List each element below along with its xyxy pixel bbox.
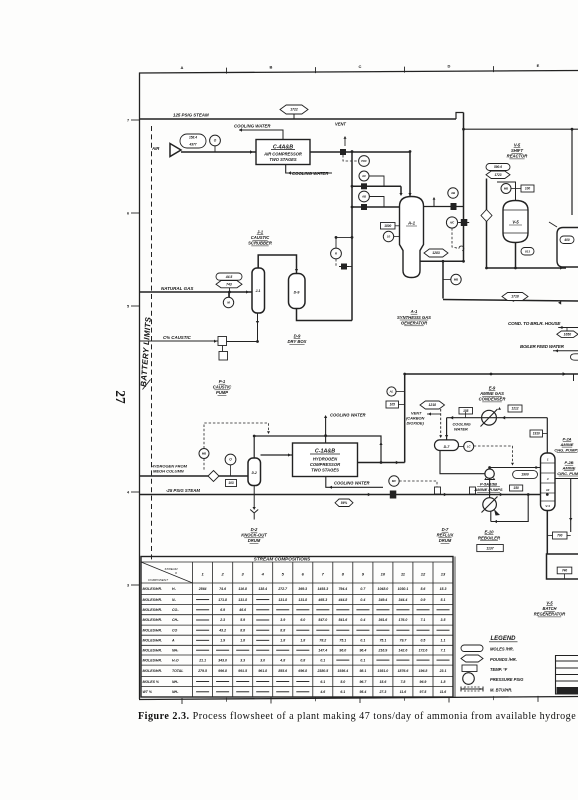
svg-text:MOLES/HR.: MOLES/HR. bbox=[143, 648, 162, 652]
svg-text:COOLING WATER: COOLING WATER bbox=[334, 481, 370, 486]
svg-text:WT %: WT % bbox=[143, 690, 153, 694]
svg-text:11.6: 11.6 bbox=[400, 690, 407, 694]
svg-text:75.1: 75.1 bbox=[339, 639, 346, 643]
label 155 stub bbox=[465, 412, 467, 418]
svg-text:MOLES/HR.: MOLES/HR. bbox=[143, 608, 162, 612]
wire right edge drop bbox=[573, 374, 575, 381]
svg-text:MOLES/HR.: MOLES/HR. bbox=[143, 628, 162, 632]
svg-text:361.6: 361.6 bbox=[379, 618, 388, 622]
svg-text:SHIFT: SHIFT bbox=[511, 148, 524, 153]
valve caustic square bbox=[218, 337, 227, 346]
svg-text:0.1: 0.1 bbox=[320, 658, 325, 662]
svg-text:AMINE: AMINE bbox=[562, 465, 576, 470]
svg-text:696.8: 696.8 bbox=[298, 669, 307, 673]
svg-text:TEMP. °F: TEMP. °F bbox=[490, 667, 508, 672]
svg-text:E-10: E-10 bbox=[484, 530, 494, 535]
pill 1722 bbox=[280, 105, 308, 114]
junction dots bbox=[351, 185, 354, 188]
svg-text:96.7: 96.7 bbox=[359, 680, 367, 684]
svg-text:SYNTHESIS GAS: SYNTHESIS GAS bbox=[397, 315, 431, 320]
svg-text:V-5: V-5 bbox=[514, 143, 521, 148]
svg-text:116.8: 116.8 bbox=[238, 587, 247, 591]
svg-text:1723: 1723 bbox=[494, 173, 501, 177]
svg-text:1800: 1800 bbox=[384, 224, 391, 228]
svg-text:10: 10 bbox=[546, 488, 550, 492]
svg-text:961.8: 961.8 bbox=[258, 669, 267, 673]
wire compressor discharge bbox=[310, 151, 410, 153]
wire pump discharge bbox=[490, 468, 541, 470]
wire right edge downcomer bbox=[570, 479, 572, 533]
svg-text:COOLING WATER: COOLING WATER bbox=[292, 171, 329, 176]
svg-text:1910: 1910 bbox=[533, 432, 540, 436]
svg-text:P-2B: P-2B bbox=[564, 460, 573, 465]
svg-text:98.1: 98.1 bbox=[359, 669, 366, 673]
wire gas riser bbox=[351, 152, 353, 321]
diamond hydrogen bbox=[208, 471, 219, 482]
svg-text:56%: 56% bbox=[341, 501, 348, 505]
svg-text:1048.0: 1048.0 bbox=[378, 587, 389, 591]
svg-text:COMPONENT: COMPONENT bbox=[148, 578, 169, 582]
svg-text:NH₃: NH₃ bbox=[172, 690, 179, 694]
svg-text:D-2: D-2 bbox=[251, 527, 258, 532]
svg-text:590.6: 590.6 bbox=[494, 165, 502, 169]
wire shift bottom header bbox=[487, 267, 567, 269]
svg-text:0.8: 0.8 bbox=[300, 658, 305, 662]
svg-text:E: E bbox=[537, 63, 540, 68]
pump P-5 bbox=[485, 469, 494, 478]
svg-text:DIOXIDE): DIOXIDE) bbox=[407, 421, 425, 426]
svg-text:4377: 4377 bbox=[188, 143, 196, 147]
svg-text:349.4: 349.4 bbox=[379, 598, 388, 602]
pill 400 bbox=[560, 236, 574, 244]
svg-text:740: 740 bbox=[562, 569, 568, 573]
svg-text:996.8: 996.8 bbox=[218, 669, 227, 673]
label 700 bbox=[553, 532, 568, 539]
svg-text:CO: CO bbox=[172, 628, 178, 632]
svg-text:D-7: D-7 bbox=[444, 445, 451, 449]
svg-text:7.1: 7.1 bbox=[421, 618, 426, 622]
svg-text:6.1: 6.1 bbox=[340, 690, 345, 694]
instrument AB2 bbox=[448, 188, 458, 198]
svg-text:5.0: 5.0 bbox=[340, 680, 345, 684]
wire 125 psig steam header bbox=[140, 118, 457, 120]
legend pressure circle bbox=[463, 673, 475, 685]
svg-text:541.6: 541.6 bbox=[338, 618, 347, 622]
svg-text:CONDENSER: CONDENSER bbox=[479, 397, 506, 402]
label 1137 bbox=[477, 545, 504, 552]
svg-text:AMINE PUMPS: AMINE PUMPS bbox=[473, 487, 503, 492]
instrument MC bbox=[389, 476, 399, 486]
svg-text:7: 7 bbox=[127, 119, 129, 123]
svg-text:855.6: 855.6 bbox=[278, 669, 287, 673]
svg-text:D: D bbox=[448, 64, 451, 69]
svg-text:MB: MB bbox=[504, 187, 508, 191]
svg-text:C% CAUSTIC: C% CAUSTIC bbox=[163, 335, 192, 340]
vessel A-1 bbox=[400, 197, 424, 278]
wire LC dash bbox=[474, 446, 513, 462]
svg-text:NATURAL GAS: NATURAL GAS bbox=[161, 286, 193, 291]
wire D-2 suction bbox=[261, 454, 294, 456]
svg-text:150: 150 bbox=[513, 486, 519, 490]
wire E-10 loop bbox=[491, 495, 528, 522]
wire V-5 inlet bbox=[497, 182, 516, 201]
pill bfw bbox=[571, 354, 578, 360]
svg-text:5.9: 5.9 bbox=[240, 618, 245, 622]
svg-text:MEOH COLUMN: MEOH COLUMN bbox=[153, 469, 184, 474]
instrument LC bbox=[464, 441, 474, 451]
svg-text:DRUM: DRUM bbox=[439, 538, 452, 543]
wire cooling water return top bbox=[239, 130, 283, 140]
svg-text:REGENERATOR: REGENERATOR bbox=[534, 612, 566, 617]
svg-text:VENT: VENT bbox=[335, 122, 346, 127]
svg-text:POUNDS /HR.: POUNDS /HR. bbox=[490, 657, 517, 662]
valve riser bbox=[341, 264, 347, 270]
svg-text:11.6: 11.6 bbox=[440, 690, 447, 694]
svg-text:3.9: 3.9 bbox=[280, 618, 285, 622]
svg-text:D-9: D-9 bbox=[294, 334, 301, 339]
wire cooling water supply bottom bbox=[286, 165, 332, 174]
svg-text:AB: AB bbox=[361, 195, 366, 199]
label 155 bbox=[459, 408, 473, 415]
svg-text:AIR: AIR bbox=[151, 146, 160, 151]
svg-text:D-7: D-7 bbox=[442, 527, 449, 532]
svg-text:GENERATOR: GENERATOR bbox=[401, 321, 427, 326]
instrument AL bbox=[387, 387, 396, 396]
svg-text:813: 813 bbox=[525, 249, 530, 253]
svg-text:PRC: PRC bbox=[361, 159, 367, 163]
pill 56% bbox=[335, 499, 353, 507]
svg-text:43.2: 43.2 bbox=[218, 628, 226, 632]
svg-text:7.8: 7.8 bbox=[400, 680, 405, 684]
svg-text:4: 4 bbox=[546, 477, 549, 481]
svg-text:CAUSTIC: CAUSTIC bbox=[251, 235, 271, 240]
svg-text:MOLES /HR.: MOLES /HR. bbox=[490, 646, 514, 651]
instrument 10 bbox=[383, 231, 393, 241]
svg-text:21.1: 21.1 bbox=[198, 658, 206, 662]
svg-text:MB: MB bbox=[454, 278, 458, 282]
svg-text:V-5: V-5 bbox=[546, 601, 553, 606]
svg-text:103: 103 bbox=[228, 481, 234, 485]
svg-text:15.3: 15.3 bbox=[440, 587, 447, 591]
svg-text:6.9: 6.9 bbox=[220, 608, 225, 612]
wire shift feed bbox=[486, 179, 488, 269]
pill 44.5 bbox=[216, 273, 242, 280]
wire natural gas line bbox=[140, 291, 253, 293]
vessel methanator right edge bbox=[557, 228, 578, 268]
svg-text:PUMP: PUMP bbox=[216, 390, 228, 395]
svg-text:TWO STAGES: TWO STAGES bbox=[269, 157, 296, 162]
svg-text:171.8: 171.8 bbox=[218, 598, 227, 602]
svg-text:3.0: 3.0 bbox=[260, 658, 265, 662]
wire MC dash bbox=[399, 481, 437, 490]
svg-text:1.9: 1.9 bbox=[220, 639, 225, 643]
valve right header bbox=[451, 203, 457, 210]
svg-text:AIR COMPRESSOR: AIR COMPRESSOR bbox=[263, 151, 302, 156]
battery limits line bbox=[151, 126, 153, 560]
svg-text:13: 13 bbox=[441, 572, 446, 577]
column D-2 bbox=[248, 458, 261, 486]
svg-text:DRY BOX: DRY BOX bbox=[288, 339, 307, 344]
wire vent co2 bbox=[427, 413, 441, 415]
wire C-1 overhead bypass bbox=[254, 436, 381, 463]
svg-text:J-1: J-1 bbox=[256, 289, 261, 293]
svg-text:2380.5: 2380.5 bbox=[316, 669, 328, 673]
wire D-7 to pump bbox=[440, 451, 485, 474]
svg-text:MOLES %: MOLES % bbox=[143, 680, 160, 684]
caustic drain square bbox=[219, 352, 228, 361]
svg-text:D-9: D-9 bbox=[294, 291, 300, 295]
legend temp rect bbox=[462, 665, 477, 672]
svg-text:3.3: 3.3 bbox=[240, 658, 245, 662]
label 1212 bbox=[508, 405, 522, 412]
svg-text:6: 6 bbox=[127, 212, 129, 216]
svg-text:1030.1: 1030.1 bbox=[398, 587, 409, 591]
svg-text:991.5: 991.5 bbox=[238, 669, 247, 673]
svg-text:CH₄: CH₄ bbox=[172, 618, 179, 622]
label 103 bbox=[226, 480, 237, 487]
svg-text:15.6: 15.6 bbox=[379, 680, 386, 684]
instrument header upper bbox=[352, 185, 401, 187]
svg-text:REACTOR: REACTOR bbox=[507, 154, 528, 159]
svg-text:0.1: 0.1 bbox=[360, 658, 365, 662]
drum D-7 bbox=[435, 440, 459, 451]
instrument AC bbox=[359, 171, 369, 181]
wire A-1 right header bbox=[423, 206, 464, 208]
instrument O2 bbox=[225, 454, 236, 465]
svg-text:74.6: 74.6 bbox=[219, 587, 226, 591]
svg-text:8.8: 8.8 bbox=[240, 628, 245, 632]
wire caustic to J-1 bbox=[227, 341, 259, 343]
svg-text:105: 105 bbox=[390, 403, 396, 407]
wire bfw line bbox=[553, 350, 578, 352]
svg-text:79.7: 79.7 bbox=[400, 639, 408, 643]
pill 743 bbox=[216, 281, 242, 288]
column V-3 bbox=[541, 453, 556, 511]
svg-text:COOLING WATER: COOLING WATER bbox=[234, 124, 271, 129]
svg-text:96.4: 96.4 bbox=[359, 648, 366, 652]
svg-text:369.3: 369.3 bbox=[298, 587, 307, 591]
svg-text:0.1: 0.1 bbox=[360, 639, 365, 643]
svg-text:CHG. PUMPS: CHG. PUMPS bbox=[554, 447, 578, 452]
svg-text:CIRC. PUMP: CIRC. PUMP bbox=[557, 471, 578, 476]
svg-text:LEGEND: LEGEND bbox=[490, 636, 516, 642]
svg-text:343.0: 343.0 bbox=[218, 658, 227, 662]
svg-text:1.1: 1.1 bbox=[441, 639, 446, 643]
svg-text:95.4: 95.4 bbox=[359, 690, 366, 694]
svg-text:1718: 1718 bbox=[511, 295, 519, 299]
svg-text:NH₃: NH₃ bbox=[172, 680, 179, 684]
wire R branch bbox=[336, 237, 352, 248]
svg-text:A-1: A-1 bbox=[410, 309, 418, 314]
svg-text:46.6: 46.6 bbox=[238, 608, 246, 612]
svg-text:NH₃: NH₃ bbox=[172, 648, 179, 652]
svg-text:J-1: J-1 bbox=[257, 230, 264, 235]
valve steam line bbox=[390, 491, 397, 499]
svg-text:131.8: 131.8 bbox=[238, 598, 247, 602]
instrument AB1 bbox=[359, 191, 370, 202]
svg-text:H₂: H₂ bbox=[172, 587, 177, 591]
svg-text:4.8: 4.8 bbox=[279, 658, 285, 662]
wire methanator inlet bbox=[549, 222, 557, 227]
svg-text:HYDROGEN: HYDROGEN bbox=[313, 456, 338, 461]
wire V-3 bottom bbox=[546, 511, 548, 554]
svg-text:AIC: AIC bbox=[449, 221, 455, 224]
svg-text:1722: 1722 bbox=[290, 108, 298, 112]
instrument header lower bbox=[352, 206, 399, 208]
instrument M1 bbox=[223, 297, 233, 307]
svg-text:1218: 1218 bbox=[428, 403, 436, 407]
svg-text:COOLING WATER: COOLING WATER bbox=[330, 413, 366, 418]
grid letters top bbox=[181, 63, 540, 73]
svg-text:M. BTU/HR.: M. BTU/HR. bbox=[490, 688, 512, 693]
svg-text:743: 743 bbox=[226, 282, 232, 286]
svg-text:8.8: 8.8 bbox=[280, 628, 285, 632]
svg-text:5.1: 5.1 bbox=[441, 598, 446, 602]
svg-text:196.8: 196.8 bbox=[419, 669, 428, 673]
svg-text:AB: AB bbox=[450, 191, 455, 195]
label 105 bbox=[386, 401, 399, 408]
wire V-3 side draw bbox=[555, 478, 578, 480]
pill 590.6 bbox=[486, 164, 510, 171]
svg-text:D-2: D-2 bbox=[252, 471, 257, 475]
fitting steam cap2 bbox=[470, 487, 476, 494]
svg-text:1.8: 1.8 bbox=[280, 639, 285, 643]
pill 1650 bbox=[557, 331, 578, 337]
svg-text:12: 12 bbox=[421, 572, 426, 577]
svg-text:REFLUX: REFLUX bbox=[437, 533, 454, 538]
svg-text:MOLES/HR.: MOLES/HR. bbox=[143, 598, 162, 602]
svg-text:272.7: 272.7 bbox=[277, 587, 288, 591]
svg-text:0.5: 0.5 bbox=[421, 639, 426, 643]
exchanger E-9 bbox=[482, 410, 497, 425]
border frame left line bbox=[139, 73, 141, 700]
wire right riser x464 bbox=[463, 113, 465, 262]
svg-text:STREAM COMPOSITIONS: STREAM COMPOSITIONS bbox=[254, 556, 311, 561]
svg-text:23.1: 23.1 bbox=[439, 669, 447, 673]
svg-text:5.6: 5.6 bbox=[421, 587, 426, 591]
svg-text:CAUSTIC: CAUSTIC bbox=[213, 385, 233, 390]
svg-text:172.6: 172.6 bbox=[419, 648, 428, 652]
wire -25 psig steam bbox=[140, 494, 541, 496]
grid ticks bottom bbox=[182, 696, 538, 704]
svg-text:KNOCK-OUT: KNOCK-OUT bbox=[241, 533, 267, 538]
wire vent arrow bbox=[344, 138, 346, 146]
svg-text:1137: 1137 bbox=[486, 546, 494, 550]
instrument R1 bbox=[331, 248, 342, 259]
valve A bbox=[361, 183, 367, 189]
svg-text:3: 3 bbox=[127, 584, 129, 588]
svg-text:700: 700 bbox=[557, 534, 563, 538]
svg-text:158.4: 158.4 bbox=[189, 136, 197, 140]
wire cooling water c1 bottom bbox=[326, 477, 383, 488]
svg-text:176.0: 176.0 bbox=[399, 618, 408, 622]
wire pump to E-10 bbox=[489, 478, 491, 497]
wire discharge drop to A-1 top bbox=[409, 152, 411, 198]
wire cooling water up bbox=[325, 417, 327, 443]
compressor C-4A&B bbox=[256, 140, 310, 165]
svg-text:V-5: V-5 bbox=[512, 220, 519, 225]
svg-text:MOLES/HR.: MOLES/HR. bbox=[143, 618, 162, 622]
instrument MB1 bbox=[451, 274, 461, 284]
svg-text:N₂: N₂ bbox=[172, 598, 177, 602]
svg-text:#: # bbox=[175, 571, 177, 575]
svg-text:MOLES/HR.: MOLES/HR. bbox=[143, 587, 162, 591]
svg-text:10: 10 bbox=[381, 572, 386, 577]
wire condenser line bbox=[447, 417, 548, 419]
svg-text:10: 10 bbox=[387, 235, 391, 239]
svg-text:SCRUBBER: SCRUBBER bbox=[248, 241, 272, 246]
svg-text:1.8: 1.8 bbox=[240, 639, 245, 643]
pill 1283 bbox=[424, 249, 448, 257]
instrument PRC bbox=[343, 155, 358, 161]
svg-text:1900: 1900 bbox=[521, 473, 529, 477]
grid ticks left bbox=[127, 119, 140, 588]
legend mbtu symbol bbox=[461, 687, 483, 692]
svg-text:0.4: 0.4 bbox=[360, 598, 365, 602]
wire hydrogen feed bbox=[140, 475, 249, 477]
instrument O1 bbox=[210, 135, 221, 146]
wire synthesis gas line bbox=[443, 300, 578, 302]
svg-text:V-3: V-3 bbox=[545, 504, 550, 508]
compressor C-1A&B bbox=[293, 443, 358, 477]
svg-text:P-2A: P-2A bbox=[562, 437, 571, 442]
column J-1 bbox=[252, 268, 265, 313]
svg-text:27.3: 27.3 bbox=[378, 690, 386, 694]
svg-text:216.9: 216.9 bbox=[378, 648, 388, 652]
svg-text:44.5: 44.5 bbox=[225, 275, 233, 279]
svg-text:794.4: 794.4 bbox=[338, 587, 347, 591]
svg-text:1936.4: 1936.4 bbox=[337, 669, 348, 673]
wire V-5 bottom bbox=[515, 243, 517, 269]
border frame bottom line bbox=[139, 697, 578, 700]
svg-text:78.2: 78.2 bbox=[319, 639, 326, 643]
svg-text:1.8: 1.8 bbox=[300, 639, 305, 643]
vessel V-5 bbox=[503, 201, 528, 243]
wire D-2 overhead bbox=[253, 436, 255, 458]
svg-text:75.1: 75.1 bbox=[379, 639, 386, 643]
instrument MB2 bbox=[501, 184, 511, 194]
flare Y bbox=[250, 510, 258, 520]
svg-text:6.1: 6.1 bbox=[320, 680, 325, 684]
svg-text:1876.6: 1876.6 bbox=[398, 669, 409, 673]
wire D-2 blowdown bbox=[253, 486, 255, 509]
pill 1900 bbox=[513, 471, 538, 479]
label 1800 bbox=[381, 223, 396, 230]
svg-text:P-1: P-1 bbox=[219, 379, 226, 384]
svg-text:131.8: 131.8 bbox=[278, 598, 287, 602]
svg-text:MB: MB bbox=[202, 452, 206, 456]
svg-text:CO₂: CO₂ bbox=[172, 608, 179, 612]
svg-text:C: C bbox=[359, 64, 362, 69]
svg-text:2564: 2564 bbox=[198, 587, 207, 591]
svg-text:WATER: WATER bbox=[454, 427, 468, 432]
svg-text:BOILER FEED WATER: BOILER FEED WATER bbox=[520, 344, 565, 349]
wire loop left riser bbox=[404, 374, 406, 463]
pill 1723 bbox=[486, 171, 510, 179]
instrument AIC1 bbox=[446, 217, 457, 228]
wire MB dash loop bbox=[203, 459, 205, 471]
svg-text:P-5A&5B: P-5A&5B bbox=[480, 482, 497, 487]
svg-text:547.0: 547.0 bbox=[318, 618, 327, 622]
svg-text:125 PSIG STEAM: 125 PSIG STEAM bbox=[173, 113, 209, 118]
svg-text:COND. TO BRLR. HOUSE: COND. TO BRLR. HOUSE bbox=[508, 321, 561, 326]
wire header stub bbox=[433, 199, 435, 207]
svg-text:REBOILER: REBOILER bbox=[478, 535, 501, 540]
valve right riser bbox=[461, 219, 468, 226]
svg-text:1493.3: 1493.3 bbox=[317, 587, 328, 591]
wire air suction bbox=[181, 151, 256, 153]
pill 813 bbox=[521, 248, 534, 256]
